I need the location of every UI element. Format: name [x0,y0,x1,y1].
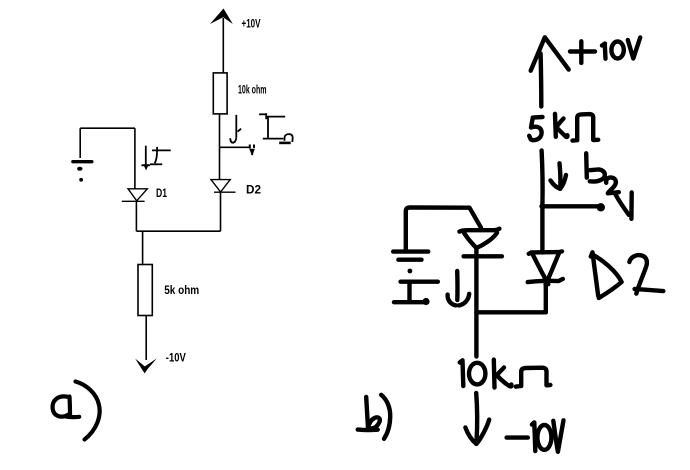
battery branch vertical [79,128,81,158]
+10V supply arrow (b) [531,37,569,70]
resistor R 10k ohm (a) [213,73,227,114]
diode D2 (a) [211,180,236,193]
-10V label (b) [507,435,528,439]
wire: D2 to bottom node [220,192,222,231]
wire: D1 to bottom node [135,201,137,231]
-10V supply arrow (a) [135,358,157,373]
current arrow at 5k (b) [557,163,562,186]
wire: bottom node to R 5k [142,231,144,265]
wire: 5k label to node (b) [539,151,544,207]
label b) [366,397,368,428]
-10V supply arrow (b) [474,393,479,440]
wire: node down to 10k label (b) [474,312,478,356]
diode D1 (b) [459,229,499,232]
svg-text:D1: D1 [156,186,167,200]
svg-text:5k ohm: 5k ohm [164,283,199,297]
svg-text:-10V: -10V [166,351,186,365]
upper-left horizontal wire to battery [80,127,135,129]
wire: D1 to bottom node (b) [474,248,478,313]
node wire with dot (b) [542,204,599,208]
label D2 (b) [591,252,598,295]
+10V label (b) [570,49,595,53]
wire: to diode D1 [134,128,136,189]
svg-text:D2: D2 [246,182,261,196]
label I D2 (b) [584,153,589,177]
+10V supply arrow (a) [210,9,233,75]
node stub wire to v [220,146,250,148]
wire: D2 to bottom node (b) [544,282,548,313]
current annotation near D1 [141,146,170,171]
current arrow battery branch (b) [455,271,460,300]
wire: R bottom to diode D2 [219,114,221,180]
annotation sketch top right [259,113,293,143]
resistor R 5k ohm (a) [138,265,152,316]
wire: R 5k to -10V arrow [145,316,147,361]
wire: top loop to diode D1 (b) [406,208,481,251]
svg-text:10k ohm: 10k ohm [238,83,267,97]
label a) [53,382,100,440]
bottom node wire (b) [476,310,545,314]
svg-text:+10V: +10V [242,17,261,31]
diode D1 (a) [122,189,148,202]
resistor label 5k ohm (b) [529,117,542,140]
label 10k ohm (b) [460,360,464,386]
current annotation arrow above node [230,115,241,143]
battery (b) [393,249,428,253]
measurement arrow (b) [616,195,629,215]
voltage mark v at node [249,145,255,156]
wire: node to diode D2 (b) [540,206,544,253]
bottom wire (a) [136,230,220,232]
battery / reference symbol (a) [71,160,93,182]
diode D2 (b) [529,251,562,253]
